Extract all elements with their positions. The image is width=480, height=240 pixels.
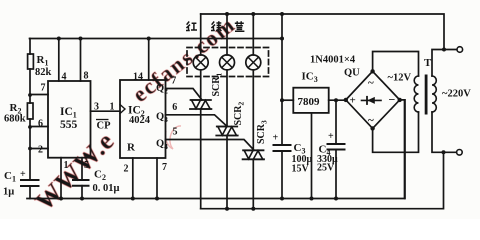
- capacitor C2: [73, 180, 89, 186]
- wire lamp1 column: [200, 14, 202, 55]
- svg-text:5: 5: [173, 127, 178, 138]
- svg-text:2: 2: [124, 164, 129, 175]
- node rail A junctions: [57, 37, 284, 41]
- svg-text:1μ: 1μ: [3, 187, 14, 198]
- transformer T secondary winding: [414, 76, 418, 112]
- wire pin 7: [30, 94, 48, 96]
- resistor R1: [28, 54, 34, 69]
- wire 7809 output: [282, 99, 293, 101]
- svg-text:6: 6: [172, 102, 177, 113]
- wire IC2 pin 2 to ground: [132, 158, 134, 199]
- svg-text:0. 01μ: 0. 01μ: [93, 183, 120, 194]
- ground rail: [27, 100, 405, 198]
- svg-text:7809: 7809: [298, 96, 321, 108]
- wire SCR2 cathode: [226, 136, 228, 209]
- wire pin 4: [58, 39, 60, 82]
- svg-text:1: 1: [110, 102, 115, 113]
- terminal 220V bottom: [457, 150, 463, 156]
- lamp L1 red: [193, 55, 208, 70]
- wire pin 5: [81, 158, 83, 180]
- wire SCR3 cathode: [252, 159, 254, 208]
- svg-text:2: 2: [38, 145, 43, 156]
- watermark: [30, 11, 240, 216]
- lamp L2 green: [220, 55, 235, 70]
- svg-text:555: 555: [60, 119, 78, 131]
- capacitor C3: [274, 145, 291, 151]
- svg-text:+: +: [273, 133, 279, 144]
- wire 7809 ground pin: [311, 113, 313, 199]
- wire pin 3 to CP: [91, 110, 121, 112]
- wire primary top to terminal: [432, 50, 457, 77]
- svg-text:−: −: [389, 93, 396, 107]
- svg-text:4024: 4024: [129, 115, 151, 126]
- clock input chevron pin 1: [120, 105, 125, 114]
- svg-text:R: R: [127, 142, 136, 154]
- svg-text:+: +: [328, 131, 334, 142]
- svg-text:15V: 15V: [292, 164, 310, 175]
- dashed lamp enclosure: [187, 48, 269, 77]
- wire pin 2: [30, 148, 48, 150]
- svg-text:4: 4: [62, 72, 67, 83]
- capacitor C1: [21, 180, 39, 186]
- wire lamp2 column: [226, 14, 228, 55]
- wire lamp3 column: [252, 14, 254, 55]
- wire bridge minus to ground rail: [400, 100, 405, 199]
- node pin7 junction: [28, 93, 32, 97]
- transformer T primary winding: [432, 76, 436, 112]
- terminal 220V top: [457, 47, 463, 53]
- wire lamp2 to SCR2 anode: [226, 70, 228, 127]
- svg-text:QU: QU: [344, 68, 360, 79]
- lamp L3 blue: [246, 55, 261, 70]
- svg-text:7: 7: [41, 83, 46, 94]
- node pin2 junction: [28, 147, 32, 151]
- wire SCR1 cathode: [200, 109, 202, 209]
- transformer core: [425, 75, 428, 115]
- wire Q4 to SCR3 gate: [166, 140, 255, 151]
- wire 220V top rail B: [201, 14, 444, 50]
- label blue lamp (Chinese): [235, 21, 245, 31]
- svg-text:8: 8: [84, 71, 89, 82]
- capacitor C4: [335, 100, 337, 144]
- svg-text:7: 7: [162, 162, 167, 173]
- svg-text:680k: 680k: [4, 114, 26, 125]
- wire 7809 input: [329, 99, 346, 101]
- wire lamp1 to SCR1 anode: [200, 70, 202, 100]
- wire lamp return lower rail: [201, 152, 444, 208]
- resistor R2: [27, 103, 33, 119]
- svg-text:~12V: ~12V: [388, 73, 412, 84]
- svg-text:14: 14: [133, 72, 143, 83]
- diode inside bridge: [362, 99, 382, 101]
- thyristor SCR3: [243, 150, 264, 159]
- svg-text:~220V: ~220V: [442, 89, 471, 100]
- wire pin 6: [30, 126, 48, 128]
- svg-text:+: +: [20, 169, 26, 180]
- svg-text:+: +: [350, 95, 356, 107]
- IC U2 4024 box: [120, 80, 166, 158]
- svg-text:~: ~: [368, 115, 374, 127]
- wire 9V riser from regulator: [281, 14, 283, 145]
- wire bridge AC top to transformer secondary: [373, 52, 419, 77]
- node pin6 junction: [28, 125, 32, 129]
- svg-text:5: 5: [84, 160, 89, 171]
- svg-text:25V: 25V: [317, 163, 335, 174]
- svg-text:~: ~: [368, 77, 374, 89]
- regulator U3 7809 box: [293, 88, 328, 113]
- thyristor SCR1: [190, 100, 211, 109]
- svg-text:3: 3: [94, 102, 99, 113]
- svg-text:1N4001×4: 1N4001×4: [310, 55, 356, 66]
- svg-text:1: 1: [64, 160, 69, 171]
- wire +9V top rail A: [30, 38, 283, 40]
- op-amp U1 IC1 555 box: [48, 81, 91, 158]
- wire Q2 to SCR1 gate: [166, 89, 203, 101]
- wire Q3 to SCR2 gate: [166, 115, 228, 127]
- wire bridge AC bottom to transformer secondary: [373, 112, 419, 152]
- wire pin 8: [80, 39, 82, 82]
- svg-text:CP: CP: [97, 121, 112, 132]
- wire pin 1 to ground: [60, 158, 62, 199]
- wire pin 14: [148, 39, 150, 81]
- label red lamp (Chinese): [186, 22, 197, 31]
- svg-text:7: 7: [171, 76, 176, 87]
- wire primary bottom to terminal: [432, 112, 457, 152]
- label green lamp (Chinese): [211, 21, 221, 31]
- thyristor SCR2: [216, 127, 237, 136]
- svg-text:T: T: [424, 57, 432, 69]
- wire IC2 pin 7 to ground: [156, 158, 158, 199]
- bridge rectifier QU diamond: [346, 71, 400, 128]
- svg-text:6: 6: [38, 119, 43, 130]
- wire lamp3 to SCR3 anode: [252, 70, 254, 150]
- svg-text:82k: 82k: [35, 67, 52, 78]
- wire left column: [29, 39, 31, 181]
